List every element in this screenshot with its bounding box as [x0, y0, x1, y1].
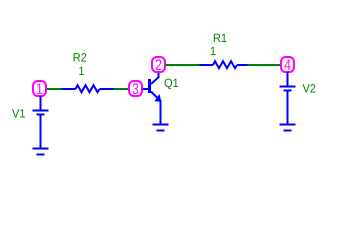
node 2	[152, 57, 165, 72]
resistor R2	[62, 85, 114, 92]
label V2	[303, 84, 316, 92]
label R1	[214, 34, 227, 42]
wire R1 to node4	[248, 64, 282, 66]
ground of V2	[280, 125, 296, 131]
label R2	[74, 53, 87, 61]
wire node1 to R2	[46, 88, 63, 90]
wire node2 to R1	[166, 64, 201, 66]
wire R2 to node3	[114, 88, 130, 90]
resistor R1	[200, 61, 248, 68]
transistor Q1	[143, 72, 162, 125]
voltage source V1	[33, 96, 49, 149]
node 3	[129, 81, 142, 96]
label V1	[12, 109, 25, 117]
value 1 of R1	[211, 47, 216, 55]
node 4	[281, 57, 294, 72]
voltage source V2	[280, 72, 296, 125]
node 1	[33, 81, 46, 96]
value 1 of R2	[79, 67, 84, 75]
label Q1	[165, 79, 179, 90]
ground of V1	[33, 149, 49, 155]
ground of Q1 emitter	[153, 125, 169, 131]
